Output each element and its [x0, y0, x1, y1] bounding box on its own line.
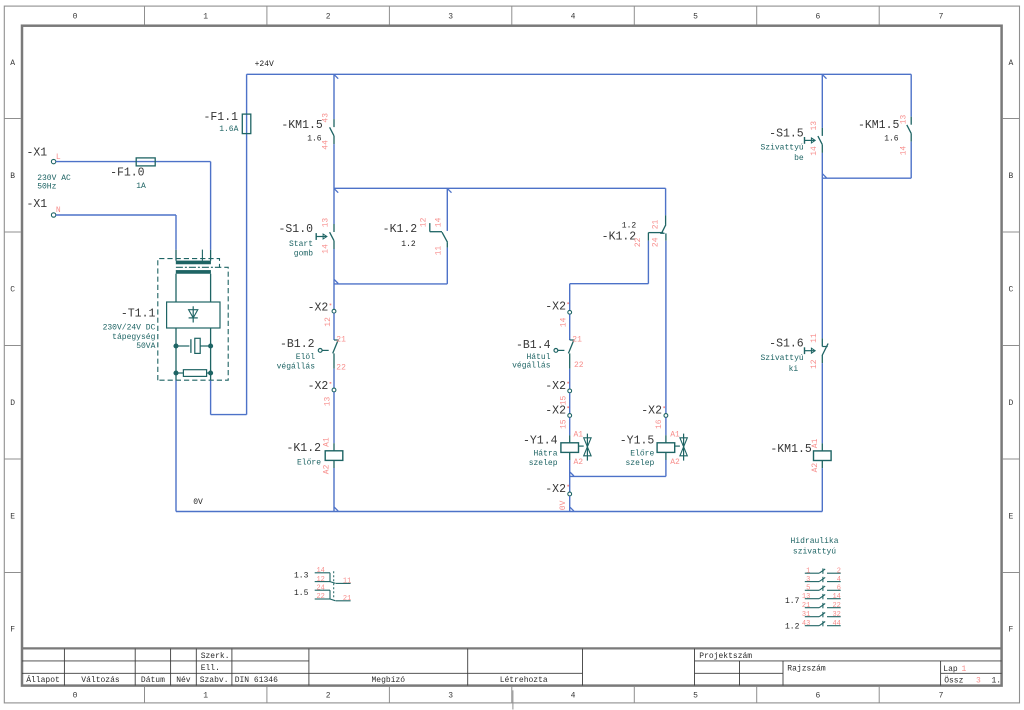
svg-text:Hátra: Hátra — [533, 450, 557, 459]
svg-text:E: E — [1008, 512, 1013, 521]
svg-text:-K1.2: -K1.2 — [602, 231, 637, 244]
svg-text:-X2: -X2 — [308, 380, 329, 393]
svg-text:B: B — [10, 172, 15, 181]
fuse F1.0 — [136, 158, 155, 166]
svg-text:14: 14 — [316, 567, 324, 575]
svg-text:-X2: -X2 — [641, 405, 662, 418]
contactor coil -KM1.5 — [821, 443, 823, 451]
wire L drop to transformer — [210, 162, 212, 250]
svg-text:1A: 1A — [136, 182, 146, 191]
wire X2 0V to rail — [569, 496, 571, 511]
svg-text:43: 43 — [321, 113, 330, 123]
svg-text:4: 4 — [571, 692, 576, 701]
transformer T1.1 core tap — [201, 250, 203, 261]
svg-text:A2: A2 — [323, 464, 332, 474]
contact mirror KM1.5 row 13/14 — [805, 594, 841, 599]
svg-text:14: 14 — [321, 244, 330, 254]
svg-text:12: 12 — [316, 576, 324, 584]
svg-text:21: 21 — [802, 602, 810, 610]
top ruler ticks — [145, 6, 880, 24]
svg-text:3: 3 — [976, 677, 981, 686]
capacitor C — [178, 345, 189, 347]
junction +24V at x334 — [334, 75, 338, 79]
svg-text:F: F — [1008, 625, 1013, 634]
contact mirror KM1.5 row 21/22 — [805, 603, 841, 608]
svg-text:-B1.2: -B1.2 — [280, 338, 315, 351]
wire rectifier right down — [210, 328, 212, 344]
wire KM1.5 contact to S1.0 — [333, 144, 335, 224]
svg-text:230V/24V DC: 230V/24V DC — [103, 323, 156, 332]
svg-text:Állapot: Állapot — [26, 676, 60, 685]
contact -K1.2 21/22/24 — [665, 215, 667, 224]
wire X2 to Y1.5 — [665, 418, 667, 436]
valve coil -Y1.5 — [665, 435, 667, 443]
svg-text:Létrehozta: Létrehozta — [500, 676, 548, 685]
power supply T1.1 dashed enclosure — [158, 259, 228, 381]
svg-text:-T1.1: -T1.1 — [121, 307, 156, 320]
svg-text:11: 11 — [810, 333, 819, 343]
rectifier box — [167, 302, 220, 328]
wire Y1.5 to valve bottom link — [665, 460, 667, 476]
wire X2 to K1.2 coil — [333, 392, 335, 443]
svg-text:24: 24 — [651, 237, 660, 247]
wire S1.5 down — [821, 153, 823, 339]
svg-text:11: 11 — [434, 246, 443, 256]
svg-text:L: L — [56, 153, 61, 162]
right ruler ticks — [1003, 119, 1020, 573]
terminal -X2:12 mark — [330, 304, 332, 306]
svg-text:22: 22 — [634, 237, 643, 247]
junction loop bottom at x334 — [334, 280, 338, 284]
wire B1.4 to X2 — [569, 369, 571, 389]
wire X2 to Y1.4 — [569, 418, 571, 436]
left ruler ticks — [4, 119, 21, 573]
svg-text:13: 13 — [899, 115, 908, 125]
svg-text:50VA: 50VA — [136, 342, 155, 351]
wire X1-N run — [56, 214, 176, 216]
contact -KM1.5 13/14 — [910, 117, 912, 125]
svg-text:Hidraulika: Hidraulika — [790, 537, 838, 546]
terminal -X2 circle c — [568, 310, 572, 314]
contact mirror KM1.5 row 31/32 — [805, 612, 841, 617]
svg-text:2: 2 — [326, 13, 331, 22]
transformer T1.1 secondary bar — [176, 270, 211, 274]
svg-text:5: 5 — [806, 585, 810, 593]
svg-text:-Y1.5: -Y1.5 — [620, 435, 655, 448]
svg-text:DIN 61346: DIN 61346 — [235, 676, 278, 685]
svg-text:0: 0 — [73, 13, 78, 22]
svg-text:gomb: gomb — [294, 249, 313, 258]
wire rail to K1.2 changeover — [665, 188, 667, 215]
contact -K1.2 aux branch wire upper — [446, 188, 448, 231]
wire KM1.5 aux down — [910, 142, 912, 179]
bottom centering mark — [512, 690, 514, 709]
terminal -X2:16 mark — [663, 406, 665, 408]
svg-text:-KM1.5: -KM1.5 — [858, 119, 900, 132]
wire psu left exit — [175, 375, 177, 381]
pushbutton -S1.0 — [333, 224, 335, 232]
svg-text:1.2: 1.2 — [622, 222, 637, 231]
contact mirror KM1.5 row 3/4 — [805, 577, 841, 582]
junction +24V at x822 — [823, 75, 827, 79]
wire secondary right to rectifier — [210, 274, 212, 302]
svg-text:Dátum: Dátum — [141, 676, 165, 685]
svg-text:6: 6 — [815, 692, 820, 701]
svg-text:A1: A1 — [323, 437, 332, 447]
terminal -X2 circle a — [332, 309, 336, 313]
bottom ruler ticks — [145, 687, 880, 703]
valve coil -Y1.4 — [569, 435, 571, 443]
svg-text:3: 3 — [806, 576, 810, 584]
svg-text:6: 6 — [837, 585, 841, 593]
svg-text:22: 22 — [316, 593, 324, 601]
junction 0V at x570 — [570, 507, 574, 511]
svg-text:1.7: 1.7 — [785, 597, 800, 606]
title block top border — [22, 647, 1002, 649]
terminal -X2:14 mark — [567, 302, 569, 304]
svg-text:21: 21 — [572, 336, 582, 345]
svg-text:-KM1.5: -KM1.5 — [281, 119, 323, 132]
wire loop rail y188 — [334, 187, 666, 189]
svg-text:Előre: Előre — [630, 450, 654, 459]
svg-text:-KM1.5: -KM1.5 — [770, 443, 812, 456]
svg-text:-X1: -X1 — [27, 198, 48, 211]
svg-text:Szivattyú: Szivattyú — [760, 143, 803, 152]
svg-text:-F1.0: -F1.0 — [110, 167, 145, 180]
svg-text:-B1.4: -B1.4 — [516, 339, 551, 352]
svg-text:szelep: szelep — [529, 459, 558, 468]
svg-text:Megbízó: Megbízó — [371, 676, 405, 685]
terminal -X2:0V mark — [567, 485, 569, 487]
svg-text:1.3: 1.3 — [294, 571, 309, 580]
contact mirror K1.2 row 1.3 — [315, 573, 351, 584]
junction loop rail at x447 — [448, 189, 452, 193]
svg-text:A: A — [1008, 59, 1013, 68]
right ruler letters — [1008, 59, 1013, 635]
fuse F1.1 — [242, 114, 251, 134]
svg-text:+24V: +24V — [255, 60, 274, 69]
wire X2 to X2 — [569, 393, 571, 413]
transformer T1.1 primary bar — [176, 261, 211, 265]
junction valves at x570 — [570, 472, 574, 476]
svg-text:Szerk.: Szerk. — [201, 652, 230, 661]
wire loop bottom y284 — [334, 283, 447, 285]
svg-text:2: 2 — [837, 567, 841, 575]
svg-text:2: 2 — [326, 692, 331, 701]
svg-text:22: 22 — [574, 361, 584, 370]
svg-text:1.2: 1.2 — [785, 623, 800, 632]
svg-text:-X2: -X2 — [545, 301, 566, 314]
svg-text:Start: Start — [289, 240, 313, 249]
svg-text:A1: A1 — [670, 431, 680, 440]
svg-text:50Hz: 50Hz — [37, 183, 56, 192]
wire K1.2 aux to loop bottom — [446, 248, 448, 284]
svg-text:Előre: Előre — [297, 458, 321, 467]
contact mirror K1.2 row 1.5 — [315, 590, 351, 601]
terminal -X2 circle g — [664, 414, 668, 418]
terminal -X2 circle f — [568, 492, 572, 496]
svg-text:0V: 0V — [193, 498, 203, 507]
wire rail to S1.5 — [821, 74, 823, 128]
svg-text:12: 12 — [420, 217, 429, 227]
transformer T1.1 core line — [176, 266, 220, 268]
svg-text:B: B — [1008, 172, 1013, 181]
junction dot res right — [209, 371, 213, 375]
svg-text:14: 14 — [434, 217, 443, 227]
svg-text:14: 14 — [810, 146, 819, 156]
svg-text:F: F — [10, 625, 15, 634]
svg-text:3: 3 — [448, 692, 453, 701]
svg-text:-S1.5: -S1.5 — [769, 128, 804, 141]
svg-text:-X2: -X2 — [545, 483, 566, 496]
wire pin24 down to X2 — [665, 241, 667, 414]
svg-text:12: 12 — [810, 359, 819, 369]
terminal -X2 circle e — [568, 414, 572, 418]
wire 0V rail — [176, 511, 822, 513]
wire S1.0 to loop bottom — [333, 249, 335, 309]
svg-text:0: 0 — [73, 692, 78, 701]
svg-text:15: 15 — [559, 419, 568, 429]
relay coil -K1.2 — [333, 443, 335, 451]
svg-text:31: 31 — [802, 611, 810, 619]
wire rail to KM1.5 contact — [333, 74, 335, 119]
junction dot cap right — [209, 344, 213, 348]
wire X1-L to F1.0 — [56, 161, 211, 163]
terminal -X1 N — [51, 213, 55, 217]
wire cap left down — [175, 348, 177, 371]
svg-text:C: C — [10, 285, 15, 294]
svg-text:14: 14 — [899, 146, 908, 156]
svg-text:Lap: Lap — [943, 665, 958, 674]
svg-text:230V AC: 230V AC — [37, 174, 71, 183]
svg-text:-S1.6: -S1.6 — [769, 338, 804, 351]
wire cap right down — [210, 348, 212, 371]
wire +24V rail — [247, 73, 912, 75]
svg-text:szivattyú: szivattyú — [793, 548, 836, 557]
svg-text:A2: A2 — [811, 463, 820, 473]
left ruler letters — [10, 59, 15, 635]
svg-text:Össz: Össz — [944, 677, 963, 686]
svg-text:44: 44 — [832, 620, 840, 628]
contact mirror KM1.5 row 1/2 — [805, 568, 841, 573]
svg-text:-X1: -X1 — [27, 146, 48, 159]
svg-text:Változás: Változás — [81, 676, 120, 685]
junction dot cap left — [174, 344, 178, 348]
transformer T1.1 primary lead left — [175, 250, 177, 261]
svg-text:E: E — [10, 512, 15, 521]
svg-text:Ell.: Ell. — [201, 664, 220, 673]
svg-text:A2: A2 — [670, 458, 680, 467]
svg-text:D: D — [1008, 399, 1013, 408]
wire pin22 corner to x570 — [570, 283, 649, 285]
svg-text:0V: 0V — [559, 500, 568, 510]
junction loop rail at x334 — [334, 189, 338, 193]
svg-text:1: 1 — [806, 567, 810, 575]
svg-text:13: 13 — [321, 218, 330, 228]
svg-text:A: A — [10, 59, 15, 68]
mirror K1.2 linkage dashed — [333, 571, 335, 598]
wire N drop to transformer — [175, 215, 177, 250]
resistor R — [178, 372, 184, 374]
svg-text:-X2: -X2 — [308, 302, 329, 315]
svg-text:ki: ki — [789, 365, 799, 374]
svg-text:13: 13 — [323, 397, 332, 407]
terminal -X2 circle d — [568, 389, 572, 393]
svg-text:11: 11 — [343, 578, 351, 586]
svg-text:-X2: -X2 — [545, 405, 566, 418]
svg-text:12: 12 — [324, 317, 333, 327]
svg-text:5: 5 — [693, 692, 698, 701]
svg-text:22: 22 — [336, 363, 346, 372]
junction 0V at x334 — [334, 507, 338, 511]
svg-text:43: 43 — [802, 620, 810, 628]
svg-text:13: 13 — [802, 593, 810, 601]
svg-text:Név: Név — [176, 676, 191, 685]
svg-text:14: 14 — [832, 593, 840, 601]
svg-text:A1: A1 — [811, 438, 820, 448]
svg-text:7: 7 — [939, 13, 944, 22]
bottom ruler numbers — [73, 692, 944, 701]
title block lines — [22, 649, 1002, 686]
svg-text:1: 1 — [961, 665, 966, 674]
wire +24V feed from psu — [210, 381, 212, 415]
svg-text:1: 1 — [203, 13, 208, 22]
svg-text:N: N — [56, 206, 61, 215]
svg-text:-F1.1: -F1.1 — [203, 111, 238, 124]
contact -K1.2 11/12/14 — [429, 223, 431, 232]
svg-text:22: 22 — [832, 602, 840, 610]
contact mirror KM1.5 row 43/44 — [805, 621, 841, 626]
svg-text:Szivattyú: Szivattyú — [760, 354, 803, 363]
limit switch -B1.2 — [334, 339, 339, 341]
svg-text:Szabv.: Szabv. — [200, 676, 229, 685]
svg-text:-X2: -X2 — [545, 380, 566, 393]
svg-text:14: 14 — [559, 317, 568, 327]
svg-text:1.6: 1.6 — [307, 134, 322, 143]
svg-text:-K1.2: -K1.2 — [286, 442, 321, 455]
wire S-loop bottom y178 — [822, 177, 911, 179]
svg-text:-K1.2: -K1.2 — [383, 223, 418, 236]
wire 0V drop from psu — [175, 381, 177, 512]
svg-text:végállás: végállás — [512, 362, 551, 371]
wire S1.6 to KM1.5 coil — [821, 363, 823, 443]
wire X2 to B1.2 — [333, 313, 335, 340]
svg-text:Rajzszám: Rajzszám — [787, 665, 826, 674]
wire KM1.5 coil to 0V — [821, 468, 823, 511]
svg-text:-S1.0: -S1.0 — [278, 223, 313, 236]
wire rail to KM1.5 aux — [910, 74, 912, 116]
terminal -X2:13 mark — [330, 382, 332, 384]
svg-text:24: 24 — [316, 584, 324, 592]
svg-text:1.: 1. — [992, 677, 1002, 686]
svg-text:A1: A1 — [574, 431, 584, 440]
pushbutton -S1.6 — [821, 338, 823, 346]
svg-text:5: 5 — [693, 13, 698, 22]
rectifier diode — [192, 306, 194, 322]
svg-text:1.6A: 1.6A — [219, 125, 238, 134]
contact mirror KM1.5 row 5/6 — [805, 586, 841, 591]
svg-text:4: 4 — [837, 576, 841, 584]
junction S-loop at x822 — [823, 174, 827, 178]
wire rectifier left down — [175, 328, 177, 344]
wire x570 down to X2 — [569, 284, 571, 311]
wire psu right exit — [210, 375, 212, 381]
svg-text:1.5: 1.5 — [294, 589, 309, 598]
svg-text:1.6: 1.6 — [884, 134, 899, 143]
wire K1.2 coil to 0V — [333, 468, 335, 512]
svg-text:be: be — [794, 154, 804, 163]
wire secondary left to rectifier — [175, 274, 177, 302]
svg-text:13: 13 — [810, 121, 819, 131]
top ruler numbers — [73, 13, 944, 22]
terminal -X2 circle b — [332, 388, 336, 392]
transformer T1.1 primary lead right — [210, 250, 212, 261]
terminal -X2:15b mark — [567, 406, 569, 408]
svg-text:21: 21 — [651, 220, 660, 230]
contact -KM1.5 43/44 — [333, 119, 335, 127]
svg-text:Projektszám: Projektszám — [699, 652, 752, 661]
svg-text:Hátul: Hátul — [526, 353, 550, 362]
pushbutton -S1.5 — [821, 128, 823, 136]
svg-text:C: C — [1008, 285, 1013, 294]
svg-text:1.2: 1.2 — [401, 240, 416, 249]
terminal -X1 L — [51, 159, 55, 163]
wire B1.2 to X2 — [333, 369, 335, 388]
svg-text:21: 21 — [343, 595, 351, 603]
svg-text:D: D — [10, 399, 15, 408]
svg-text:32: 32 — [832, 611, 840, 619]
svg-text:44: 44 — [321, 140, 330, 150]
wire valve bottom link — [570, 475, 666, 477]
limit switch -B1.4 — [570, 339, 575, 341]
wire pin22 down — [647, 241, 649, 284]
svg-text:21: 21 — [336, 336, 346, 345]
terminal -X2:15a mark — [567, 382, 569, 384]
svg-text:16: 16 — [655, 419, 664, 429]
svg-text:4: 4 — [571, 13, 576, 22]
svg-text:7: 7 — [939, 692, 944, 701]
svg-text:Elöl: Elöl — [296, 353, 315, 362]
svg-text:1: 1 — [203, 692, 208, 701]
svg-text:-Y1.4: -Y1.4 — [523, 435, 558, 448]
svg-text:tápegység: tápegység — [112, 333, 155, 342]
svg-text:3: 3 — [448, 13, 453, 22]
wire X2 to B1.4 — [569, 314, 571, 340]
svg-text:végállás: végállás — [277, 363, 316, 372]
wire Y1.4 to T junction — [569, 460, 571, 492]
svg-text:6: 6 — [815, 13, 820, 22]
svg-text:szelep: szelep — [625, 459, 654, 468]
svg-text:A2: A2 — [574, 458, 584, 467]
junction dot res left — [174, 371, 178, 375]
